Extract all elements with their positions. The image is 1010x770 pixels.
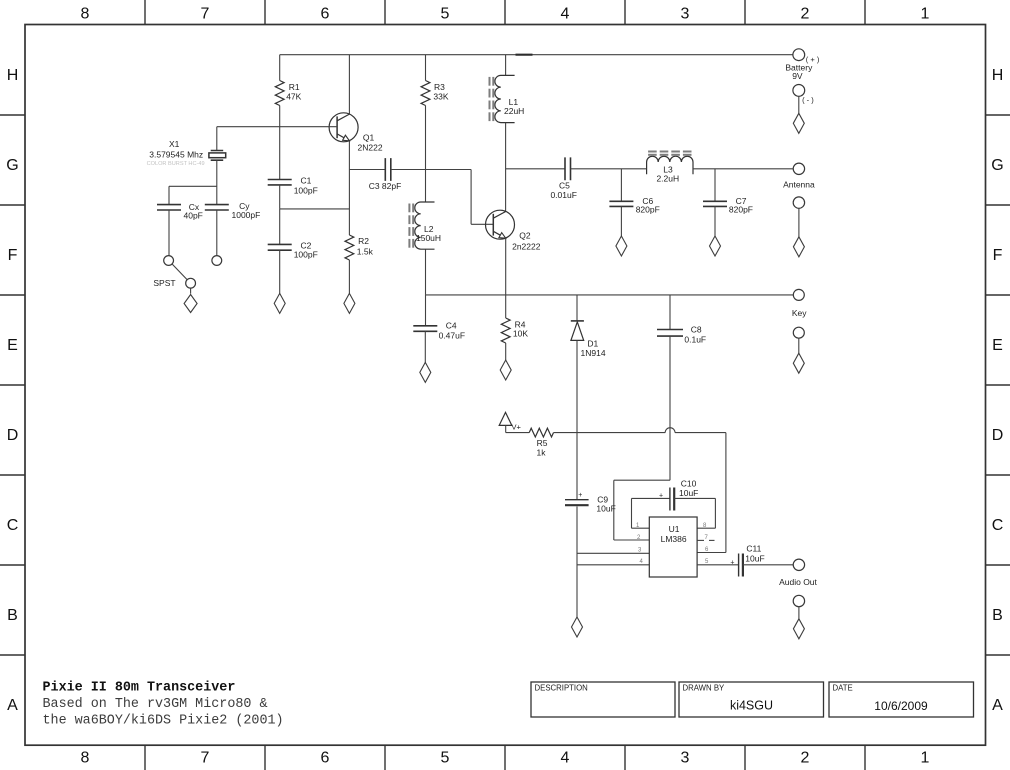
wire R5 to U1 pin 6 xyxy=(554,432,666,434)
svg-text:1: 1 xyxy=(921,750,930,767)
capacitor C4 0.47uF xyxy=(425,295,427,326)
svg-text:G: G xyxy=(6,157,18,174)
svg-text:10uF: 10uF xyxy=(679,488,698,498)
svg-text:+: + xyxy=(578,492,582,499)
wire V+ supply rail xyxy=(280,54,793,56)
ground C7 xyxy=(710,236,721,256)
description box xyxy=(531,682,675,717)
key terminal xyxy=(793,289,804,300)
capacitor C1 100pF xyxy=(279,127,281,180)
svg-text:2: 2 xyxy=(801,5,810,22)
ground R2 xyxy=(344,293,355,313)
wire C1-C2 junction to R2 xyxy=(280,208,350,210)
svg-text:10/6/2009: 10/6/2009 xyxy=(874,699,928,713)
svg-text:X1: X1 xyxy=(169,139,180,149)
capacitor C9 10uF xyxy=(576,433,578,500)
svg-text:DRAWN BY: DRAWN BY xyxy=(683,684,726,693)
svg-text:B: B xyxy=(7,607,18,624)
capacitor C8 0.1uF xyxy=(669,295,671,330)
svg-text:Based on The rv3GM Micro80 &: Based on The rv3GM Micro80 & xyxy=(43,697,268,712)
svg-text:( - ): ( - ) xyxy=(802,96,814,105)
switch SPST xyxy=(164,256,174,266)
svg-text:SPST: SPST xyxy=(153,278,175,288)
svg-text:1N914: 1N914 xyxy=(581,348,606,358)
svg-text:9V: 9V xyxy=(792,71,803,81)
svg-text:0.47uF: 0.47uF xyxy=(439,330,465,340)
svg-text:100pF: 100pF xyxy=(294,185,318,195)
svg-text:6: 6 xyxy=(321,5,330,22)
terminal Cy open pin xyxy=(212,256,222,266)
svg-text:DESCRIPTION: DESCRIPTION xyxy=(535,684,588,693)
capacitor C10 10uF xyxy=(632,498,670,528)
svg-text:+: + xyxy=(659,492,663,499)
resistor R1 xyxy=(279,55,281,81)
svg-text:A: A xyxy=(992,697,1003,714)
svg-text:Q2: Q2 xyxy=(519,231,531,241)
svg-text:B: B xyxy=(992,607,1003,624)
svg-text:100pF: 100pF xyxy=(294,250,318,260)
wire U1 pin 7 stub xyxy=(697,539,704,541)
svg-text:40pF: 40pF xyxy=(184,211,203,221)
ground C4 xyxy=(420,362,431,382)
capacitor C5 0.01uF xyxy=(506,168,565,170)
svg-text:Key: Key xyxy=(792,308,807,318)
wire Q1 base xyxy=(217,126,337,128)
svg-text:820pF: 820pF xyxy=(636,205,660,215)
inductor L1 xyxy=(505,55,507,76)
capacitor C2 100pF xyxy=(279,209,281,245)
svg-text:10K: 10K xyxy=(513,329,528,339)
svg-text:C3 82pF: C3 82pF xyxy=(369,181,402,191)
svg-text:C4: C4 xyxy=(446,320,457,330)
svg-text:A: A xyxy=(7,697,18,714)
svg-text:47K: 47K xyxy=(286,92,301,102)
svg-text:Antenna: Antenna xyxy=(783,180,815,190)
svg-text:E: E xyxy=(992,337,1003,354)
audio out terminal xyxy=(793,559,804,570)
capacitor Cy 1000pF xyxy=(205,205,229,210)
svg-text:DATE: DATE xyxy=(833,684,853,693)
svg-text:R3: R3 xyxy=(434,82,445,92)
svg-text:5: 5 xyxy=(441,750,450,767)
battery terminal (-) xyxy=(793,85,805,97)
svg-text:ki4SGU: ki4SGU xyxy=(730,699,773,713)
transistor Q2 2n2222 xyxy=(486,210,515,239)
svg-text:C: C xyxy=(7,517,19,534)
svg-text:6: 6 xyxy=(321,750,330,767)
resistor R3 xyxy=(425,55,427,81)
drawn-by box xyxy=(679,682,824,717)
svg-text:150uH: 150uH xyxy=(416,233,441,243)
svg-text:H: H xyxy=(992,67,1004,84)
svg-text:5: 5 xyxy=(441,5,450,22)
svg-text:2.2uH: 2.2uH xyxy=(656,174,679,184)
svg-text:10uF: 10uF xyxy=(745,554,764,564)
svg-text:V+: V+ xyxy=(512,422,522,431)
svg-text:LM386: LM386 xyxy=(661,534,687,544)
ground R4 xyxy=(500,360,511,380)
svg-text:E: E xyxy=(7,337,18,354)
svg-text:C10: C10 xyxy=(681,479,697,489)
ground SPST xyxy=(190,288,192,293)
capacitor C7 820pF xyxy=(714,169,716,202)
svg-text:10uF: 10uF xyxy=(596,504,615,514)
ground C2 xyxy=(274,293,285,313)
capacitor C6 820pF xyxy=(620,169,622,202)
svg-text:H: H xyxy=(7,67,19,84)
resistor R5 1k xyxy=(506,432,530,434)
svg-text:7: 7 xyxy=(201,5,210,22)
svg-text:R2: R2 xyxy=(358,236,369,246)
wire U1 pin 3 xyxy=(577,552,649,554)
capacitor Cx 40pF xyxy=(157,205,181,210)
svg-text:0.01uF: 0.01uF xyxy=(550,190,576,200)
svg-text:4: 4 xyxy=(561,5,570,22)
svg-text:F: F xyxy=(993,247,1003,264)
battery terminal (+) xyxy=(793,49,805,61)
svg-text:4: 4 xyxy=(561,750,570,767)
svg-text:3.579545 Mhz: 3.579545 Mhz xyxy=(149,150,203,160)
wire crystal to Cx xyxy=(169,186,217,204)
capacitor C11 10uF xyxy=(697,564,739,566)
wire U1 pin 4 xyxy=(577,564,649,566)
svg-text:G: G xyxy=(991,157,1003,174)
resistor R4 10K xyxy=(505,295,507,318)
key ground pin xyxy=(793,327,804,338)
svg-text:R1: R1 xyxy=(289,82,300,92)
wire C8 to U1 pin 2 xyxy=(614,480,670,540)
svg-text:+: + xyxy=(730,559,734,566)
svg-text:22uH: 22uH xyxy=(504,106,524,116)
V+ power symbol xyxy=(499,412,512,425)
svg-text:820pF: 820pF xyxy=(729,205,753,215)
op-amp U1 LM386 xyxy=(649,517,697,577)
svg-text:C11: C11 xyxy=(746,544,761,554)
svg-text:C: C xyxy=(992,517,1004,534)
svg-text:Pixie II 80m Transceiver: Pixie II 80m Transceiver xyxy=(43,680,236,695)
svg-text:3: 3 xyxy=(681,5,690,22)
svg-text:D: D xyxy=(7,427,19,444)
date box xyxy=(829,682,974,717)
ground battery xyxy=(798,96,800,113)
wire C3 to Q2 base xyxy=(426,170,494,225)
svg-text:1.5k: 1.5k xyxy=(357,247,374,257)
svg-text:Audio Out: Audio Out xyxy=(779,577,817,587)
svg-text:33K: 33K xyxy=(433,92,448,102)
svg-text:1: 1 xyxy=(921,5,930,22)
audio out ground pin xyxy=(793,595,804,606)
transistor Q1 2N222 xyxy=(348,55,350,114)
svg-text:Q1: Q1 xyxy=(363,133,375,143)
svg-text:1000pF: 1000pF xyxy=(232,210,261,220)
ground C9 xyxy=(572,617,583,637)
resistor R2 1.5k xyxy=(345,235,354,260)
svg-text:2n2222: 2n2222 xyxy=(512,241,541,251)
svg-text:7: 7 xyxy=(201,750,210,767)
crystal X1 3.579545 Mhz xyxy=(216,127,218,151)
capacitor C3 82pF xyxy=(349,169,385,171)
svg-text:the wa6BOY/ki6DS Pixie2 (2001): the wa6BOY/ki6DS Pixie2 (2001) xyxy=(43,714,284,729)
svg-text:8: 8 xyxy=(81,5,90,22)
ground C6 xyxy=(616,236,627,256)
svg-text:R5: R5 xyxy=(537,438,548,448)
inductor L2 150uH xyxy=(415,202,435,249)
svg-text:C8: C8 xyxy=(691,325,702,335)
svg-text:U1: U1 xyxy=(669,524,680,534)
wire key line xyxy=(426,294,794,296)
svg-text:3: 3 xyxy=(681,750,690,767)
svg-text:D: D xyxy=(992,427,1004,444)
inductor L3 2.2uH xyxy=(647,156,693,174)
svg-text:C5: C5 xyxy=(559,180,570,190)
diode D1 1N914 xyxy=(576,295,578,321)
svg-text:COLOR BURST HC-49: COLOR BURST HC-49 xyxy=(147,161,205,167)
svg-text:1k: 1k xyxy=(537,448,547,458)
svg-text:0.1uF: 0.1uF xyxy=(684,335,706,345)
svg-text:8: 8 xyxy=(81,750,90,767)
antenna terminal xyxy=(793,163,804,174)
svg-text:2: 2 xyxy=(801,750,810,767)
svg-text:F: F xyxy=(8,247,18,264)
antenna ground pin xyxy=(793,197,804,208)
svg-text:C1: C1 xyxy=(301,176,312,186)
svg-text:2N222: 2N222 xyxy=(358,143,383,153)
